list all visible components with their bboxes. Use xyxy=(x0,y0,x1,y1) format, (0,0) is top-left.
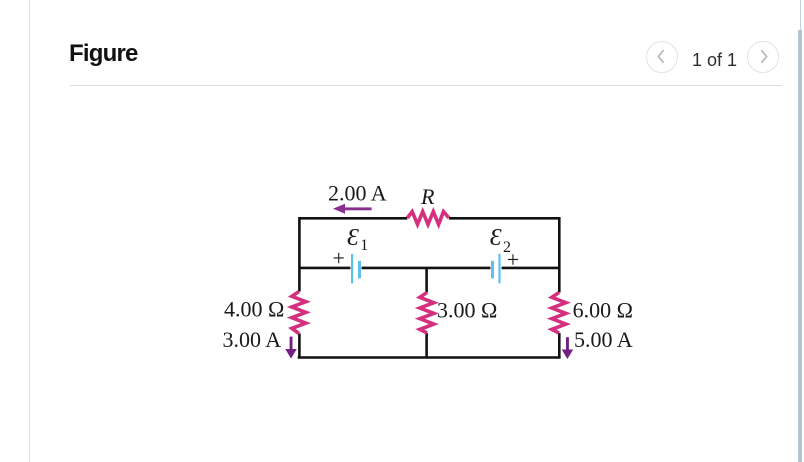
svg-text:3.00 A: 3.00 A xyxy=(223,327,282,352)
svg-text:2.00 A: 2.00 A xyxy=(328,181,387,206)
svg-text:R: R xyxy=(420,184,435,209)
svg-text:Ɛ: Ɛ xyxy=(490,225,502,251)
svg-text:1: 1 xyxy=(360,237,368,254)
svg-text:Ɛ: Ɛ xyxy=(347,225,359,251)
svg-text:5.00 A: 5.00 A xyxy=(574,327,633,352)
svg-text:4.00 Ω: 4.00 Ω xyxy=(224,297,284,322)
svg-text:+: + xyxy=(333,246,345,271)
svg-text:+: + xyxy=(507,247,519,272)
svg-text:3.00 Ω: 3.00 Ω xyxy=(437,297,497,322)
svg-text:6.00 Ω: 6.00 Ω xyxy=(573,297,633,322)
